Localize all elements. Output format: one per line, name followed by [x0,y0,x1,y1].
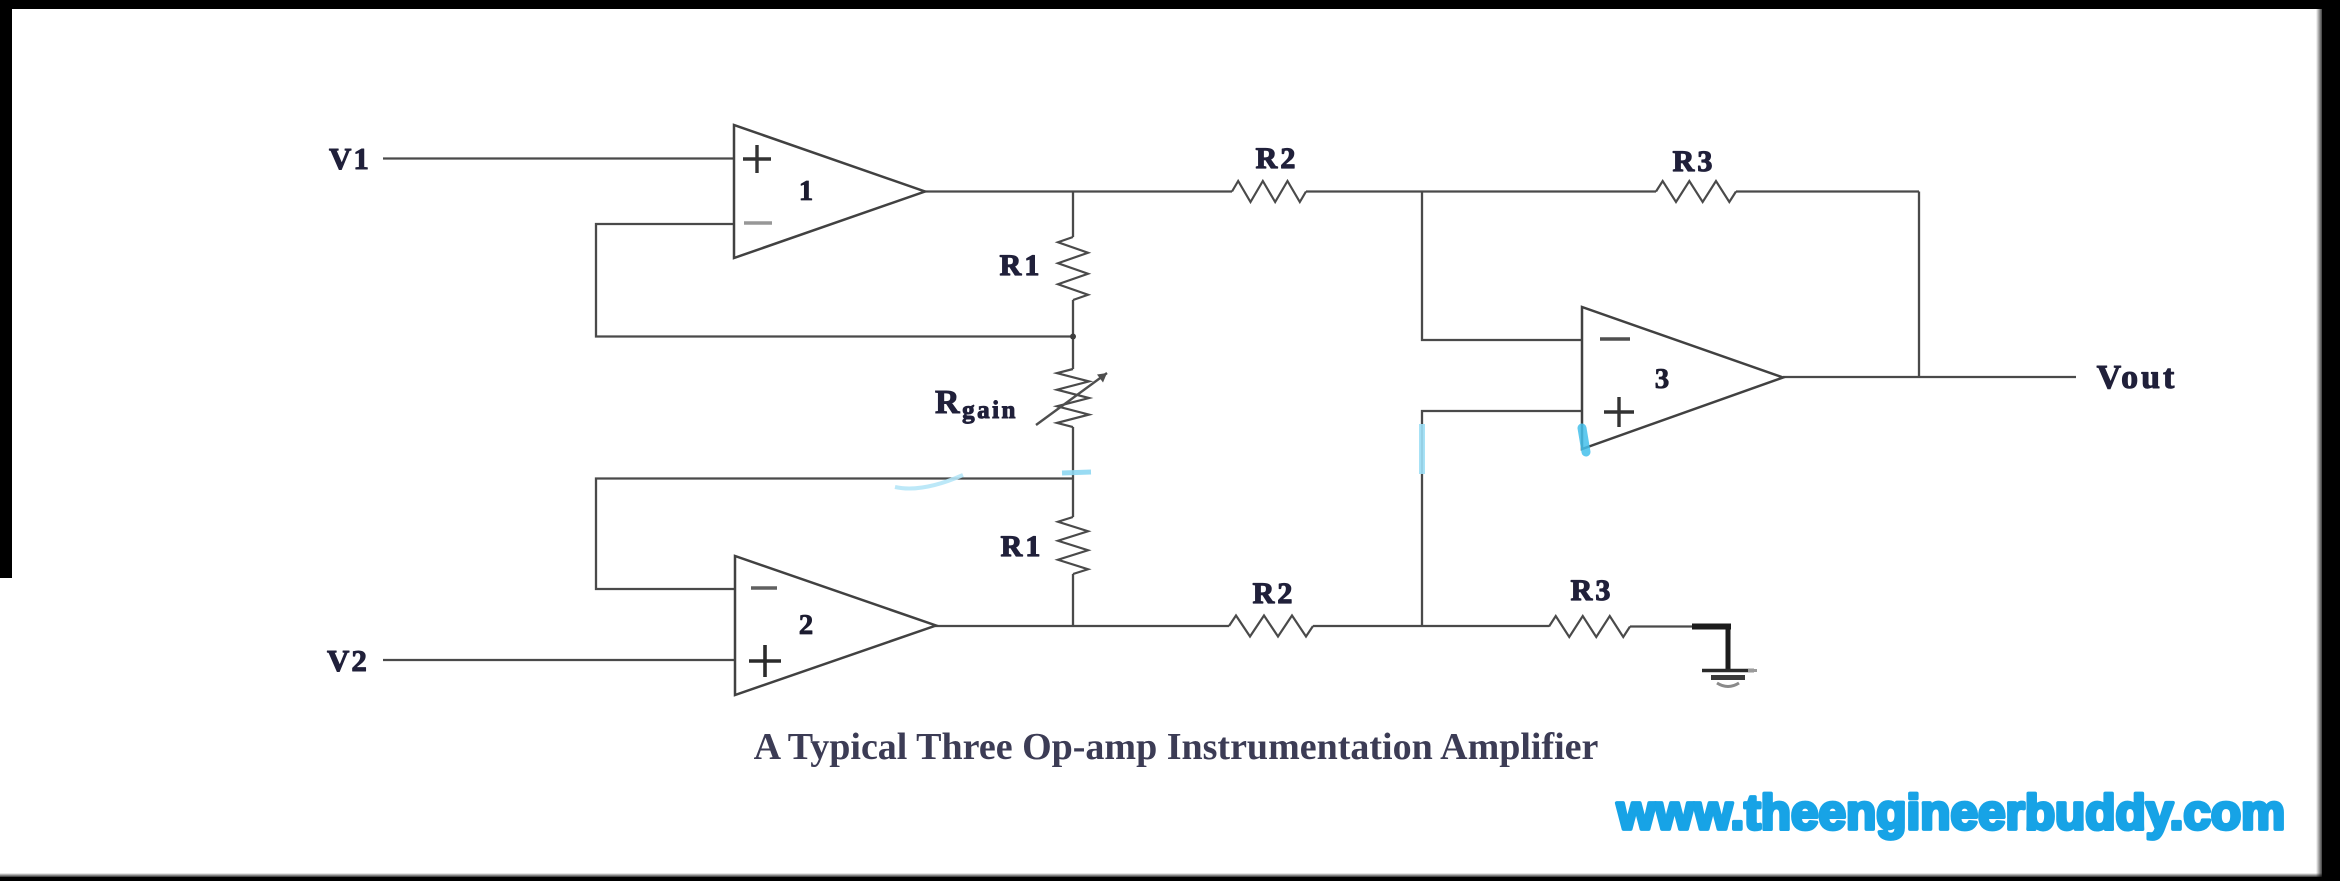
svg-text:Vout: Vout [2097,359,2178,396]
svg-text:3: 3 [1655,363,1670,395]
svg-text:R2: R2 [1256,142,1299,175]
svg-text:R3: R3 [1571,574,1614,607]
svg-text:R2: R2 [1253,577,1296,610]
svg-text:V1: V1 [329,141,371,176]
svg-text:R1: R1 [1000,249,1043,282]
svg-text:2: 2 [799,609,814,641]
svg-text:1: 1 [799,175,814,207]
svg-text:R1: R1 [1001,530,1044,563]
svg-text:V2: V2 [327,643,369,678]
svg-text:A Typical Three Op-amp Instrum: A Typical Three Op-amp Instrumentation A… [754,726,1599,768]
svg-text:R3: R3 [1673,145,1716,178]
svg-text:www.theengineerbuddy.com: www.theengineerbuddy.com [1616,785,2285,840]
